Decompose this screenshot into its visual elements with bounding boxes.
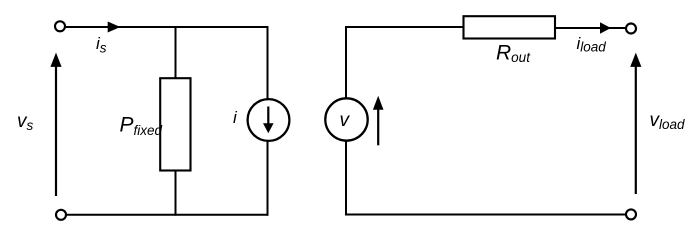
wire (resistor branch, top lead): [175, 26, 177, 79]
label v (source value, inside circle): [340, 110, 351, 131]
label i_s: [96, 34, 107, 56]
current arrowhead i_load: [600, 22, 611, 34]
wire (source bottom lead down and across to output): [346, 141, 626, 215]
terminal (top-right, output +): [626, 24, 636, 34]
voltage source V1 (circle): [325, 98, 367, 140]
label P_fixed: [120, 114, 163, 139]
svg-text:Rout: Rout: [496, 42, 531, 66]
wire (right branch, below current source): [267, 141, 269, 216]
wire (R_out to output terminal): [555, 27, 626, 29]
label i (current source value): [233, 108, 238, 127]
current arrowhead i_s on top wire: [108, 22, 121, 33]
terminal (bottom-left, input -): [56, 210, 66, 220]
current source arrow (points down): [263, 107, 274, 134]
terminal (bottom-right, output -): [626, 209, 636, 219]
label R_out: [496, 42, 531, 66]
svg-text:Pfixed: Pfixed: [120, 114, 163, 139]
svg-text:vs: vs: [17, 111, 34, 133]
voltage annotation arrow v_s (points up): [50, 53, 61, 196]
svg-text:is: is: [96, 34, 107, 56]
label v_s: [17, 111, 34, 133]
wire (bottom of left network): [67, 214, 269, 216]
terminal (top-left, input +): [55, 21, 65, 31]
svg-text:i: i: [233, 108, 238, 127]
source annotation arrow (points up, beside v): [373, 96, 384, 146]
wire (source top lead up and across to R_out): [346, 27, 464, 99]
wire (resistor branch, bottom lead): [175, 171, 177, 216]
svg-text:vload: vload: [650, 110, 686, 132]
current source I1 (circle): [248, 99, 290, 141]
label v_load: [650, 110, 686, 132]
label i_load: [577, 34, 607, 55]
node/vertical wire (right branch, above current source): [267, 26, 269, 100]
svg-text:iload: iload: [577, 34, 607, 55]
resistor P_fixed (box): [160, 78, 190, 170]
resistor R_out (box): [464, 16, 556, 38]
voltage annotation arrow v_load (points up): [630, 53, 641, 194]
svg-text:v: v: [340, 110, 351, 131]
wire (top of left network): [66, 26, 269, 28]
